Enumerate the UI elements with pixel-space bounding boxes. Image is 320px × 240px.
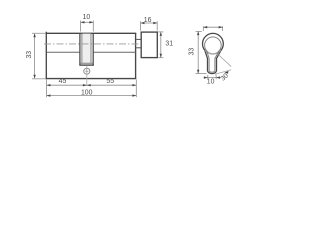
cam slot <box>80 34 93 66</box>
svg-text:10: 10 <box>207 79 215 86</box>
body mid line (round part bottom) <box>47 51 136 53</box>
screw hole center line <box>86 66 88 86</box>
dimension 31 (knob diameter) <box>158 32 163 58</box>
svg-text:31: 31 <box>165 40 173 47</box>
svg-text:33: 33 <box>26 51 33 59</box>
dimension 33 (end view) <box>196 31 207 73</box>
extension lines for 45/55/100 <box>47 80 137 98</box>
edge extension overshoots <box>32 33 46 79</box>
svg-text:16: 16 <box>144 17 152 24</box>
centerline axis <box>44 43 141 45</box>
svg-text:55: 55 <box>106 78 114 85</box>
end view top dimension (unlabeled) <box>203 26 222 31</box>
end view circle bottom arc (through foot) <box>205 50 221 54</box>
dimension 10 (cam width) <box>81 21 94 32</box>
dimension 100 <box>47 94 51 96</box>
cylinder body side view <box>46 32 137 79</box>
dimension 33 (side view height) <box>34 34 36 78</box>
euro profile end view: outer outline <box>202 33 223 73</box>
dimension 45 <box>47 84 51 86</box>
svg-text:33: 33 <box>188 48 195 56</box>
screw hole <box>84 68 90 74</box>
svg-text:10: 10 <box>83 14 91 21</box>
neck between body and thumbturn <box>136 39 141 47</box>
thumbturn knob side view <box>141 32 157 58</box>
dimension 55 <box>87 84 91 86</box>
svg-text:45: 45 <box>59 78 67 85</box>
cam slot bottom double line <box>79 62 93 64</box>
dimension 16 (knob length) <box>141 21 158 30</box>
end view inner outline <box>205 37 222 72</box>
30 degree angle dimension <box>215 55 231 75</box>
cam slot interior shading <box>82 34 90 63</box>
svg-text:30: 30 <box>220 72 230 82</box>
dimension 10 (end view foot width) <box>204 75 221 79</box>
svg-text:100: 100 <box>81 89 93 96</box>
